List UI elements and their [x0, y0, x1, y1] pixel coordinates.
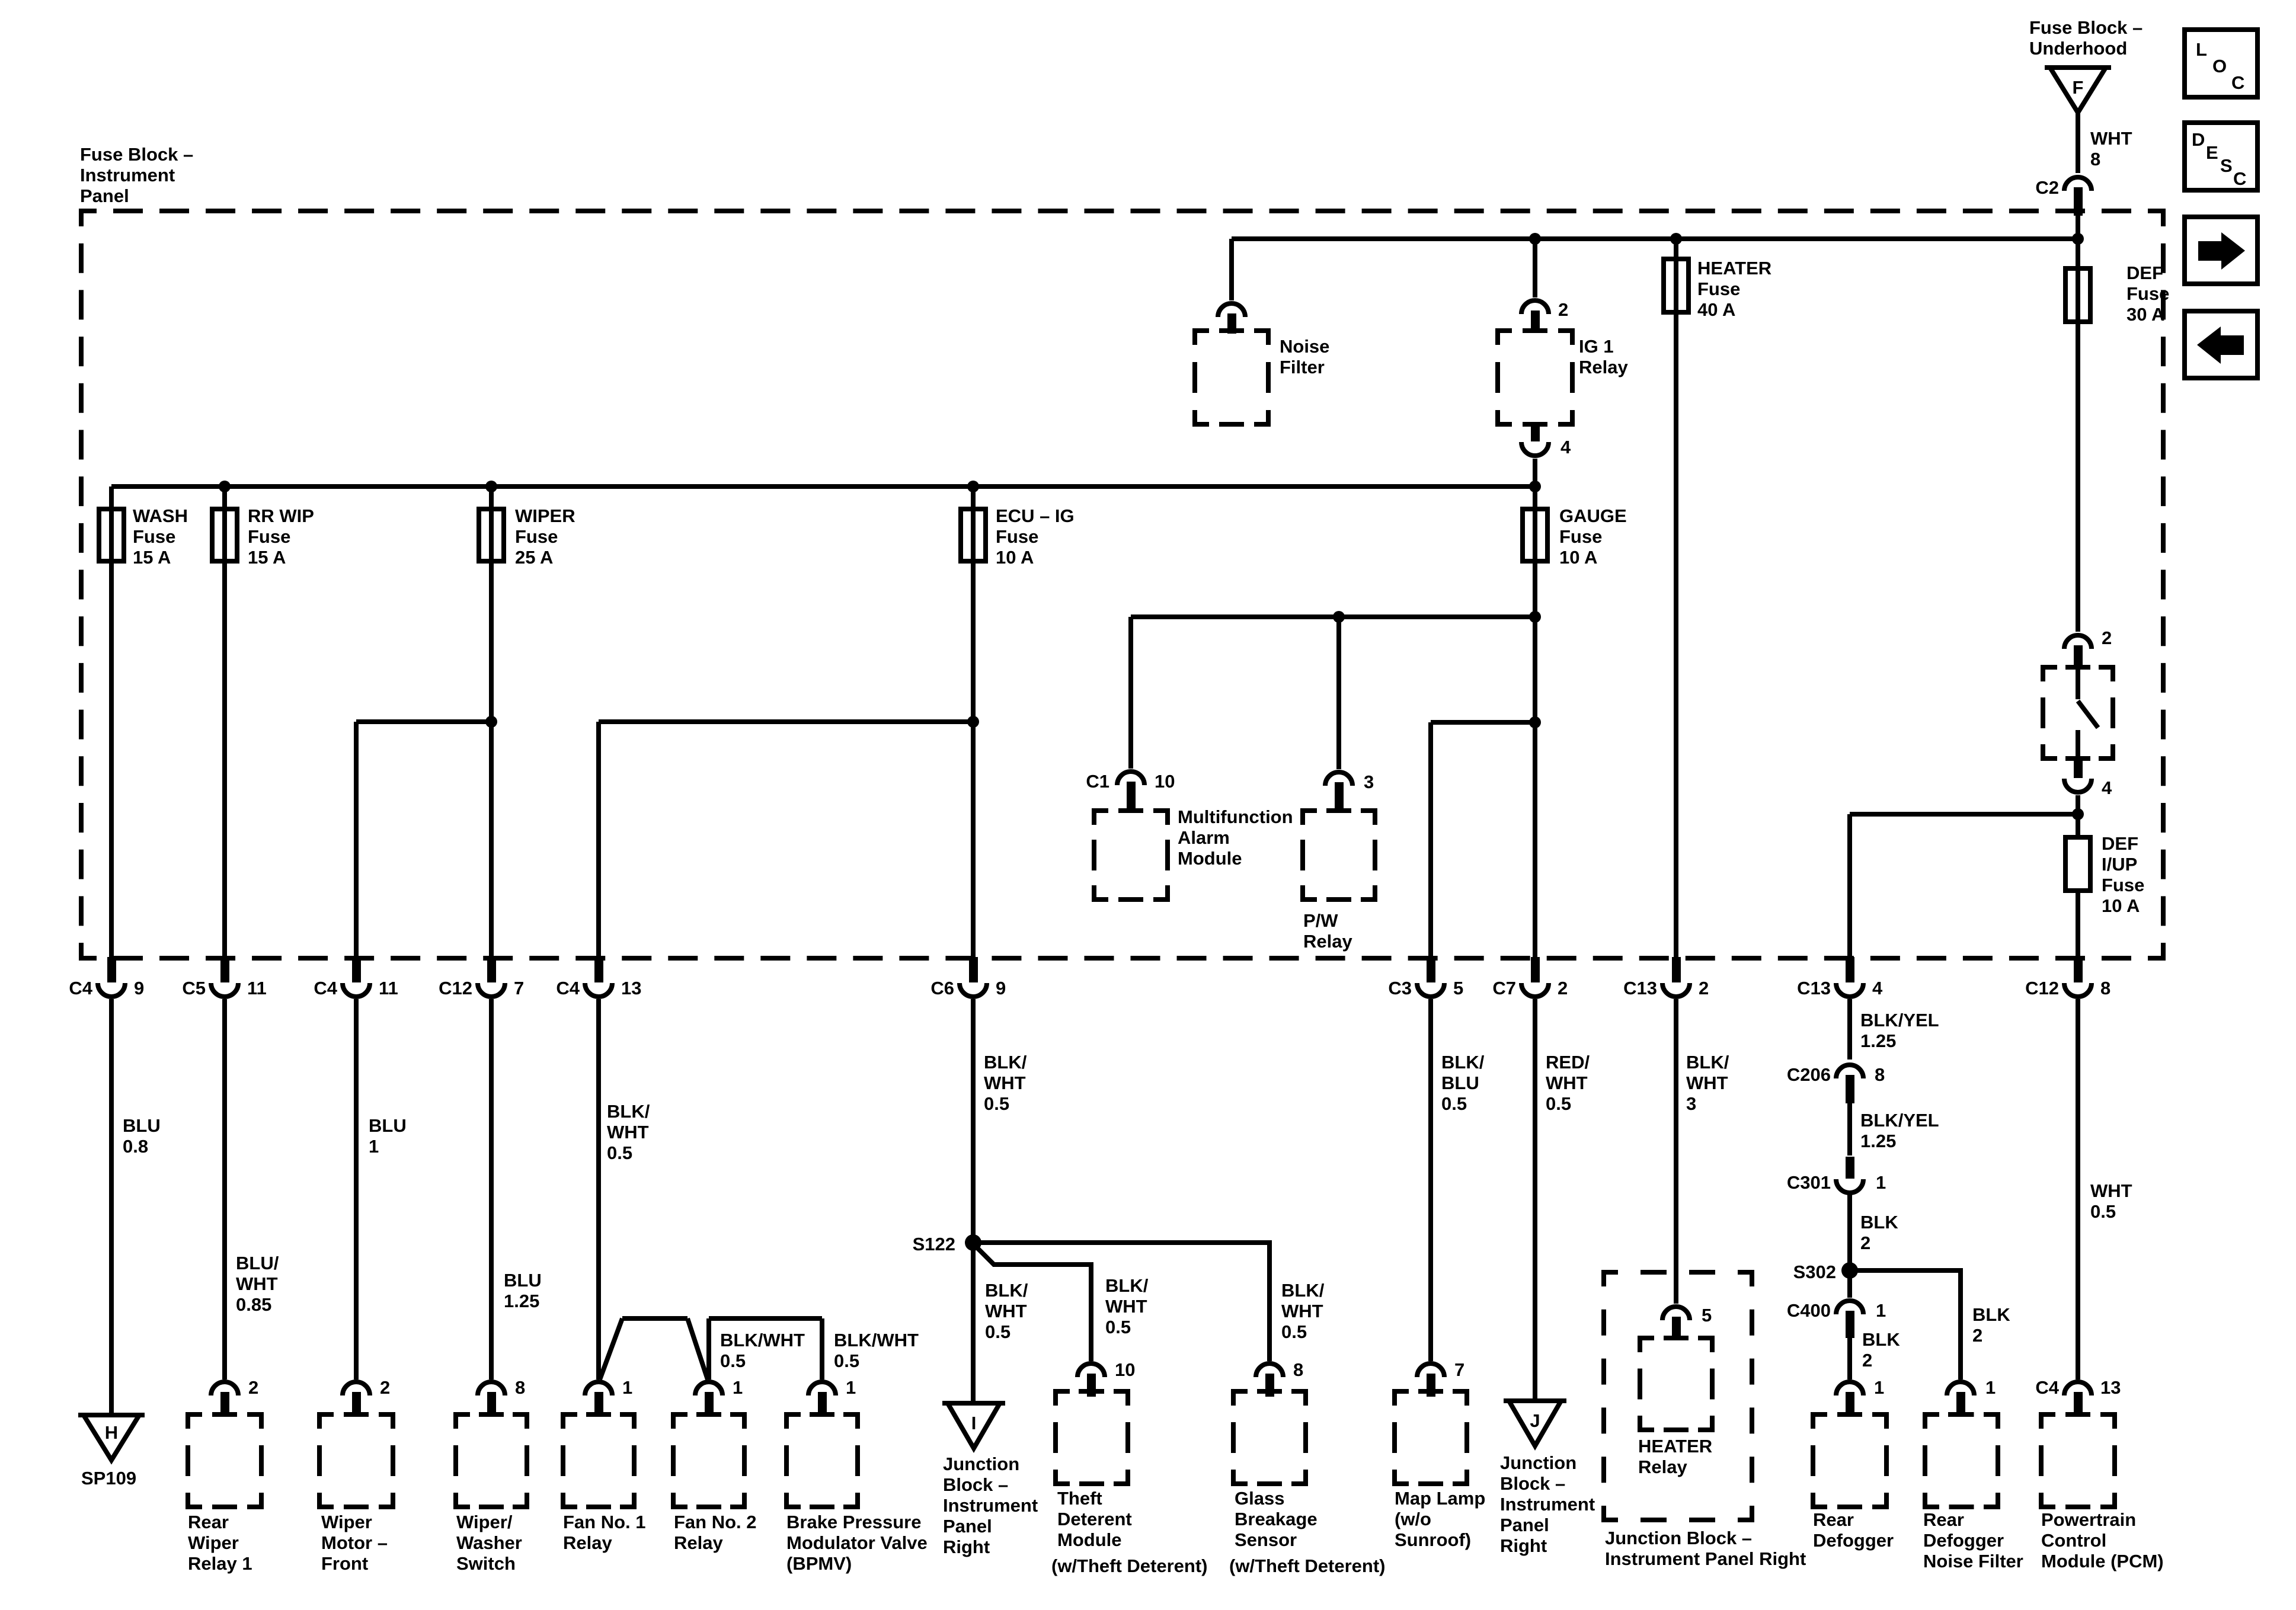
- inline connector C206: [1836, 1065, 1863, 1103]
- HEATER relay pin 5 connector: [1662, 1307, 1690, 1339]
- bridge riser at Fan2 pin: [706, 1318, 711, 1379]
- wire C301 to splice S302: [1847, 1195, 1852, 1270]
- svg-text:10: 10: [1115, 1359, 1135, 1380]
- connector C4-13 at fuse block border: [585, 957, 612, 997]
- rear defogger noise filter dashed box: [1925, 1412, 1998, 1507]
- switch upper contact wire: [2076, 667, 2080, 699]
- svg-text:C2: C2: [2035, 177, 2059, 198]
- svg-text:L: L: [2196, 39, 2207, 60]
- svg-text:4: 4: [1560, 437, 1571, 457]
- svg-text:I: I: [971, 1413, 977, 1433]
- wire branch down to connector C4-11: [354, 722, 359, 957]
- fan no 1 relay dashed box: [563, 1412, 634, 1507]
- wire HEATER fuse through body: [1674, 259, 1678, 312]
- wire GAUGE fuse to connector C7-2: [1533, 561, 1537, 957]
- rear defogger dashed box: [1813, 1412, 1886, 1507]
- svg-text:13: 13: [2100, 1377, 2121, 1398]
- wire GAUGE fuse through body: [1533, 509, 1537, 561]
- PW relay pin 3 connector: [1325, 772, 1352, 812]
- Noise Filter input connector: [1218, 303, 1245, 334]
- junction GAUGE fuse / IG1 pin4 on fuse bus: [1529, 481, 1541, 492]
- fuse F4 ECU-IG 10A: [961, 509, 986, 561]
- svg-text:C7: C7: [1492, 978, 1516, 998]
- svg-text:S122: S122: [913, 1234, 955, 1254]
- connector C13-2 at fuse block border: [1662, 957, 1690, 997]
- heater relay dashed box: [1640, 1336, 1712, 1430]
- Rear Defogger Noise Filter pin 1 connector: [1947, 1382, 1974, 1415]
- wiper washer switch dashed box: [456, 1412, 527, 1507]
- svg-text:C4: C4: [69, 978, 92, 998]
- svg-text:C12: C12: [2025, 978, 2059, 998]
- connector C3-5 at fuse block border: [1417, 957, 1444, 997]
- svg-text:1: 1: [1876, 1172, 1886, 1193]
- relay K1 IG 1 Relay dashed box: [1498, 328, 1572, 427]
- IG1 relay pin 2 connector: [1521, 300, 1549, 333]
- wire top bus to HEATER fuse: [1674, 239, 1678, 259]
- junction PW relay branch: [1333, 611, 1345, 623]
- svg-text:Fuse Block –Underhood: Fuse Block –Underhood: [2029, 17, 2142, 59]
- connector C12-7 at fuse block border: [478, 957, 505, 997]
- svg-text:10: 10: [1155, 771, 1175, 792]
- Theft Deterrent Module pin 10 connector: [1077, 1363, 1105, 1397]
- connector C4-11 at fuse block border: [343, 957, 370, 997]
- svg-text:1: 1: [1876, 1300, 1886, 1321]
- Fan No2 Relay pin 1 connector: [695, 1382, 722, 1415]
- wire branch down to connector C3-5: [1428, 722, 1433, 957]
- svg-text:C206: C206: [1787, 1064, 1831, 1085]
- bridge drop to BPMV pin: [820, 1318, 824, 1379]
- Rear Defogger pin 1 connector: [1836, 1382, 1863, 1415]
- alarm module connector C1 pin 10: [1117, 772, 1144, 811]
- Fan No1 Relay pin 1 connector: [585, 1382, 612, 1415]
- legend box arrow left: [2185, 311, 2257, 378]
- connector C2: [2064, 177, 2092, 216]
- wire C4-13 to Fan No1 Relay: [596, 999, 601, 1379]
- svg-text:2: 2: [2102, 628, 2112, 648]
- wire fuse bus to WIPER fuse: [489, 486, 494, 509]
- junction S of DEF I/UP branch: [2072, 808, 2084, 820]
- brake pressure modulator valve dashed box: [786, 1412, 858, 1507]
- connector C6-9 at fuse block border: [960, 957, 987, 997]
- svg-text:C6: C6: [930, 978, 954, 998]
- wire S122 to glass breakage sensor: [973, 1243, 1269, 1361]
- IG1 relay pin 4 connector: [1521, 422, 1549, 456]
- junction of C4-13 branch on ECU-IG wire: [967, 716, 979, 728]
- svg-text:(w/Theft Deterent): (w/Theft Deterent): [1051, 1555, 1208, 1576]
- theft deterrent module dashed box: [1056, 1389, 1128, 1484]
- powertrain control module dashed box: [2041, 1412, 2115, 1507]
- noise filter NF1 dashed box: [1195, 328, 1268, 424]
- wire S302 to rear defogger noise filter: [1850, 1270, 1961, 1379]
- wire ECU-IG fuse to connector C6-9: [971, 561, 976, 957]
- svg-text:Wiper/WasherSwitch: Wiper/WasherSwitch: [456, 1512, 522, 1574]
- svg-text:C1: C1: [1086, 771, 1109, 792]
- junction of HEATER fuse on top bus: [1670, 233, 1682, 245]
- defogger switch pin 2 connector: [2064, 635, 2092, 667]
- fuse F8 DEF I/UP 10A: [2065, 837, 2090, 891]
- svg-text:2: 2: [380, 1377, 390, 1398]
- BPMV pin 1 connector: [808, 1382, 836, 1415]
- legend box LOC: [2185, 30, 2257, 97]
- wire fuse bus to RR WIP fuse: [222, 486, 227, 509]
- bridge diagonal from Fan1 pin: [600, 1318, 622, 1379]
- wire top bus to IG1 relay pin 2: [1533, 239, 1537, 297]
- wire branch down to alarm module connector C1-10: [1128, 617, 1133, 769]
- PCM connector C4 pin 13: [2064, 1382, 2092, 1415]
- svg-text:7: 7: [1454, 1359, 1464, 1380]
- svg-text:3: 3: [1364, 772, 1374, 792]
- splice S302: [1841, 1262, 1858, 1279]
- branch wire for alarm module and PW relay: [1131, 614, 1535, 619]
- wire WIPER fuse through body: [489, 509, 494, 561]
- Map Lamp pin 7 connector: [1417, 1363, 1444, 1397]
- svg-text:9: 9: [996, 978, 1006, 998]
- wire junction to GAUGE fuse: [1533, 486, 1537, 509]
- junction block feed triangle I: [942, 1403, 1005, 1448]
- Glass Breakage Sensor pin 8 connector: [1256, 1363, 1283, 1397]
- fuse bus wire inside fuse block: [111, 484, 1535, 489]
- junction of IG1 relay drop on top bus: [1529, 233, 1541, 245]
- junction of C4-11 branch on WIPER wire: [485, 716, 497, 728]
- wire DEF fuse through body: [2076, 268, 2080, 322]
- top bus wire inside fuse block: [1232, 236, 2078, 241]
- switch lower contact wire: [2076, 730, 2080, 758]
- Wiper Washer Switch pin 8 connector: [478, 1382, 505, 1415]
- svg-text:S: S: [2220, 155, 2233, 176]
- wire C13-2 to HEATER relay pin 5: [1674, 999, 1678, 1304]
- branch wire to C13-4 drop: [1850, 812, 2078, 817]
- svg-text:C: C: [2231, 72, 2244, 93]
- bridge diagonal to Fan2 pin: [687, 1318, 708, 1379]
- svg-text:D: D: [2192, 129, 2205, 150]
- wire branch down to connector C13-4: [1847, 814, 1852, 957]
- wire C4-11 to Wiper Motor Front: [354, 999, 359, 1379]
- svg-text:1: 1: [622, 1377, 632, 1398]
- wire C5-11 to Rear Wiper Relay 1: [222, 999, 227, 1379]
- svg-text:SP109: SP109: [81, 1468, 136, 1489]
- svg-text:C4: C4: [2035, 1377, 2059, 1398]
- wire fuse bus to ECU-IG fuse: [971, 486, 976, 509]
- junction of DEF fuse wire on top bus: [2072, 233, 2084, 245]
- svg-text:C4: C4: [314, 978, 337, 998]
- wire WASH fuse to connector C4-9: [109, 561, 114, 957]
- wire C12-7 to Wiper Washer Switch: [489, 999, 494, 1379]
- wire S122 to junction block I: [971, 1243, 976, 1403]
- svg-text:5: 5: [1702, 1305, 1712, 1326]
- wire branch down to PW relay pin 3: [1336, 617, 1341, 769]
- wire C206 to connector C301: [1847, 1103, 1852, 1156]
- splice S122: [965, 1234, 981, 1251]
- svg-text:C301: C301: [1787, 1172, 1831, 1193]
- junction alarm branch on GAUGE wire: [1529, 611, 1541, 623]
- wire fuse bus to WASH fuse: [109, 486, 114, 509]
- svg-text:E: E: [2206, 142, 2218, 163]
- glass breakage sensor dashed box: [1233, 1389, 1306, 1484]
- wire C4-9 to splice triangle H: [109, 999, 114, 1415]
- svg-text:C13: C13: [1623, 978, 1657, 998]
- connector C12-8 at fuse block border: [2064, 957, 2092, 997]
- junction block instrument panel right dashed box: [1604, 1272, 1752, 1520]
- svg-text:F: F: [2073, 77, 2084, 98]
- svg-text:C: C: [2233, 168, 2246, 189]
- ground splice triangle H: [78, 1415, 145, 1460]
- connector C7-2 at fuse block border: [1521, 957, 1549, 997]
- connector C4-9 at fuse block border: [98, 957, 125, 997]
- svg-text:4: 4: [2102, 777, 2112, 798]
- fuse F7 DEF 30A: [2065, 268, 2090, 322]
- wire DEF I/UP fuse to connector C12-8: [2076, 891, 2080, 957]
- svg-text:J: J: [1530, 1410, 1540, 1431]
- junction RR WIP fuse on fuse bus: [219, 481, 231, 492]
- svg-text:1: 1: [846, 1377, 856, 1398]
- wire C3-5 to Map Lamp: [1428, 999, 1433, 1361]
- Wiper Motor Front pin 2 connector: [343, 1382, 370, 1415]
- defogger relay switch dashed box: [2043, 665, 2113, 761]
- wire ECU-IG fuse through body: [971, 509, 976, 561]
- branch wire to C3-5: [1431, 720, 1535, 725]
- map lamp dashed box: [1395, 1389, 1467, 1484]
- wire from triangle F to connector C2: [2076, 113, 2080, 173]
- connector C13-4 at fuse block border: [1836, 957, 1863, 997]
- wiper motor front dashed box: [319, 1412, 393, 1507]
- svg-text:(w/Theft Deterent): (w/Theft Deterent): [1229, 1555, 1386, 1576]
- wire IG1 relay pin 4 to fuse bus: [1533, 459, 1537, 486]
- svg-text:9: 9: [134, 978, 144, 998]
- svg-text:O: O: [2212, 56, 2227, 76]
- power feed triangle F (Fuse Block - Underhood): [2045, 68, 2111, 113]
- wire C7-2 to junction block J: [1533, 999, 1537, 1401]
- svg-text:NoiseFilter: NoiseFilter: [1280, 336, 1329, 377]
- wire C6-9 to splice S122: [971, 999, 976, 1243]
- branch wire to C4-13: [599, 719, 973, 724]
- connector C5-11 at fuse block border: [211, 957, 238, 997]
- svg-text:C400: C400: [1787, 1300, 1831, 1321]
- svg-text:C13: C13: [1797, 978, 1831, 998]
- svg-text:2: 2: [248, 1377, 258, 1398]
- inline connector C400: [1836, 1301, 1863, 1338]
- wire WIPER fuse to connector C12-7: [489, 561, 494, 957]
- svg-text:2: 2: [1558, 299, 1568, 320]
- Rear Wiper Relay pin 2 connector: [211, 1382, 238, 1415]
- defogger switch pin 4 connector: [2064, 760, 2092, 792]
- wire top bus to DEF fuse: [2076, 239, 2080, 268]
- fan no 2 relay dashed box: [673, 1412, 744, 1507]
- svg-text:C12: C12: [439, 978, 472, 998]
- fuse block - instrument panel dashed boundary box: [81, 211, 2163, 958]
- inline connector C301: [1836, 1157, 1863, 1193]
- junction C3-5 branch on GAUGE wire: [1529, 716, 1541, 728]
- bridge top wire Fan1 to Fan2: [622, 1316, 687, 1321]
- svg-text:11: 11: [379, 978, 398, 998]
- branch wire to C4-11: [356, 719, 491, 724]
- svg-text:8: 8: [515, 1377, 525, 1398]
- wire C400 to rear defogger: [1847, 1338, 1852, 1379]
- wire HEATER fuse to connector C13-2: [1674, 312, 1678, 957]
- svg-text:8: 8: [1293, 1359, 1303, 1380]
- svg-text:7: 7: [514, 978, 524, 998]
- rear wiper relay 1 dashed box: [188, 1412, 261, 1507]
- wire C2 to top bus: [2076, 213, 2080, 239]
- svg-text:2: 2: [1558, 978, 1568, 998]
- svg-text:DEFFuse30 A: DEFFuse30 A: [2126, 263, 2169, 325]
- legend box arrow right: [2185, 217, 2257, 284]
- svg-text:2: 2: [1699, 978, 1709, 998]
- svg-text:11: 11: [247, 978, 267, 998]
- legend box DESC: [2185, 123, 2257, 190]
- fuse F2 RR WIP 15A: [212, 509, 237, 561]
- wire C12-8 to PCM connector C4-13: [2076, 999, 2080, 1379]
- fuse F3 WIPER 25A: [479, 509, 504, 561]
- bridge top wire Fan2 to BPMV: [709, 1316, 822, 1321]
- svg-text:8: 8: [1875, 1064, 1885, 1085]
- svg-text:DEFI/UPFuse10 A: DEFI/UPFuse10 A: [2102, 833, 2144, 916]
- svg-text:1: 1: [1985, 1377, 1996, 1398]
- svg-text:H: H: [105, 1422, 118, 1443]
- relay K2 P/W Relay dashed box: [1303, 808, 1375, 900]
- wire RR WIP fuse to connector C5-11: [222, 561, 227, 957]
- svg-text:5: 5: [1453, 978, 1463, 998]
- fuse F6 HEATER 40A: [1664, 259, 1689, 312]
- junction WIPER fuse on fuse bus: [485, 481, 497, 492]
- wire DEF fuse to switch pin 2: [2076, 322, 2080, 632]
- wire C13-4 to connector C206: [1847, 999, 1852, 1060]
- svg-text:C5: C5: [182, 978, 206, 998]
- wire switch pin 4 to DEF I/UP junction: [2076, 795, 2080, 837]
- fuse F1 WASH 15A: [99, 509, 124, 561]
- multifunction alarm module dashed box: [1094, 808, 1168, 900]
- wire S302 to connector C400: [1847, 1270, 1852, 1298]
- svg-text:4: 4: [1872, 978, 1883, 998]
- junction ECU-IG fuse on fuse bus: [967, 481, 979, 492]
- svg-text:8: 8: [2100, 978, 2110, 998]
- svg-text:1: 1: [733, 1377, 743, 1398]
- wire branch down to connector C4-13: [596, 722, 601, 957]
- svg-text:C3: C3: [1388, 978, 1412, 998]
- svg-text:1: 1: [1874, 1377, 1884, 1398]
- svg-text:S302: S302: [1793, 1262, 1836, 1282]
- wire top bus to Noise Filter connector: [1229, 239, 1234, 300]
- svg-text:BLU1.25: BLU1.25: [504, 1270, 542, 1311]
- svg-text:C4: C4: [556, 978, 580, 998]
- svg-text:13: 13: [621, 978, 641, 998]
- wire RR WIP fuse through body: [222, 509, 227, 561]
- switch blade diagonal: [2078, 701, 2098, 728]
- wire S122 to theft deterrent module: [976, 1246, 1091, 1361]
- fuse F5 GAUGE 10A: [1523, 509, 1547, 561]
- wire WASH fuse through body: [109, 509, 114, 561]
- junction block feed triangle J: [1504, 1401, 1566, 1446]
